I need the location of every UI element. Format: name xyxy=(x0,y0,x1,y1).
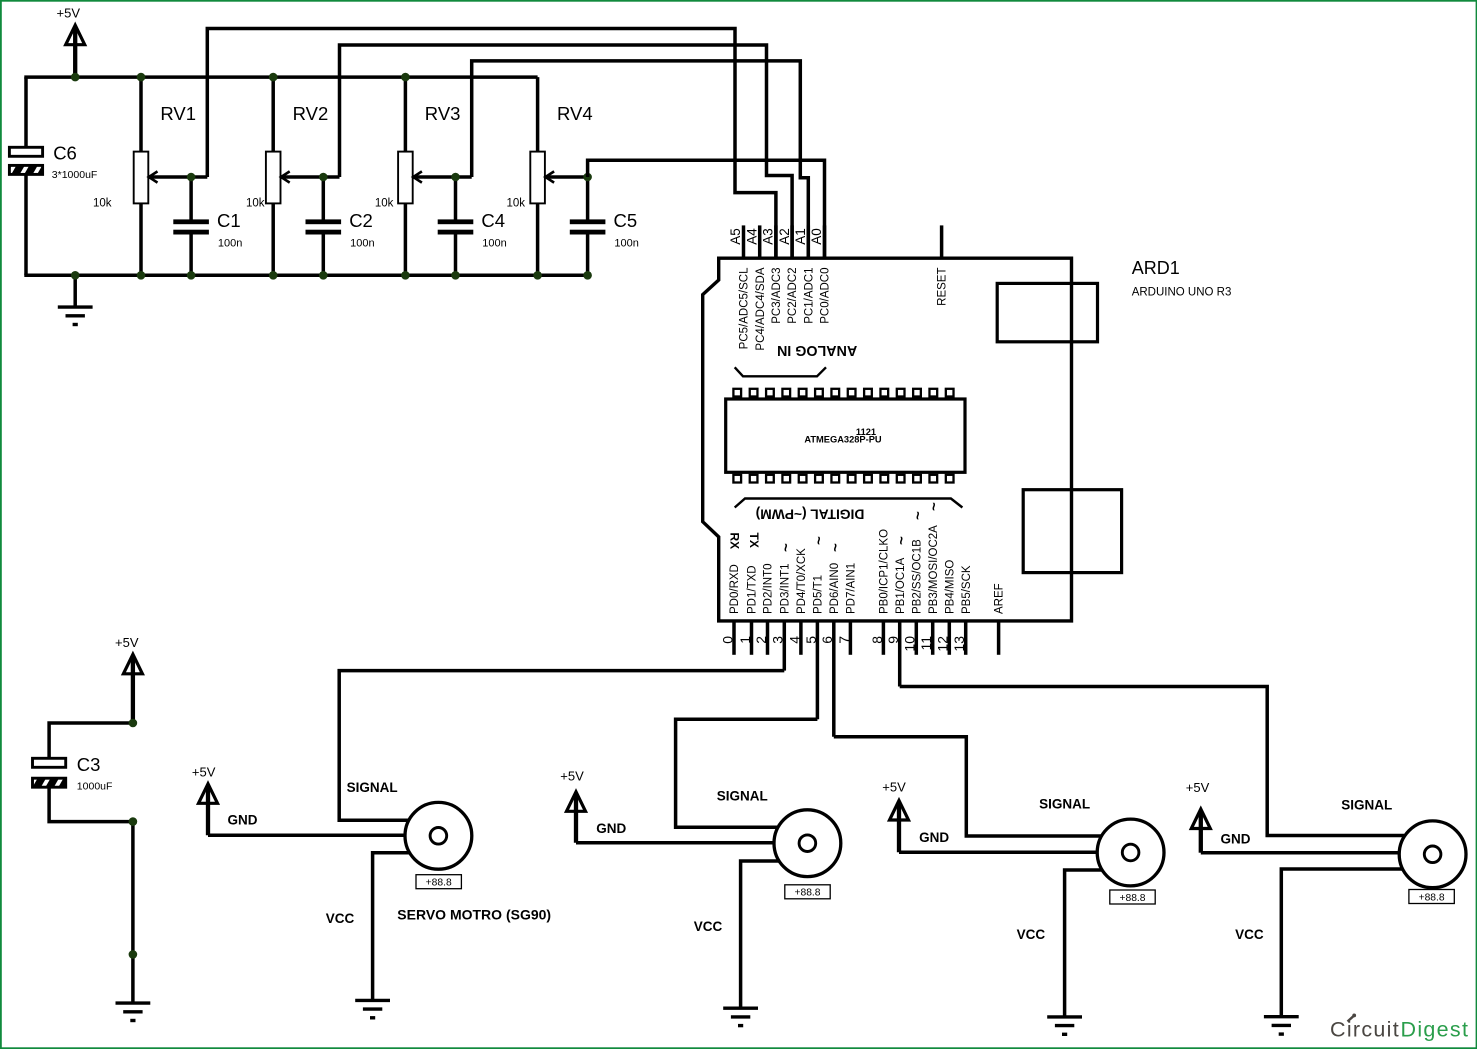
ground at servo3 vcc xyxy=(1047,1015,1082,1018)
svg-text:SIGNAL: SIGNAL xyxy=(1039,796,1090,811)
ground at C3 xyxy=(116,1001,151,1004)
arduino power connector rectangle xyxy=(1023,490,1121,573)
svg-text:AREF: AREF xyxy=(994,583,1006,614)
svg-text:Circuit: Circuit xyxy=(1330,1017,1400,1041)
servo motor M2 xyxy=(774,810,841,877)
svg-text:RX: RX xyxy=(727,533,741,550)
wire servo3 gnd xyxy=(899,851,1131,855)
capacitor C1 xyxy=(189,177,193,220)
chip pins bottom row xyxy=(733,475,741,483)
svg-text:PB1/OC1A: PB1/OC1A xyxy=(895,557,907,614)
svg-text:C1: C1 xyxy=(217,210,241,231)
wire pin9 to servo4 signal xyxy=(900,687,1404,836)
svg-text:10k: 10k xyxy=(375,198,394,210)
svg-text:10k: 10k xyxy=(246,198,265,210)
bracket digital xyxy=(735,499,963,508)
servo motor M3 xyxy=(1097,819,1164,886)
svg-text:3: 3 xyxy=(770,636,786,644)
svg-text:DIGITAL (~PWM): DIGITAL (~PWM) xyxy=(756,507,865,522)
svg-text:RV4: RV4 xyxy=(557,103,593,124)
wire C6 to bottom bus xyxy=(24,175,28,275)
svg-text:PB4/MISO: PB4/MISO xyxy=(944,560,956,614)
svg-text:PC3/ADC3: PC3/ADC3 xyxy=(771,268,783,324)
wire pin3 to servo1 signal xyxy=(339,671,784,821)
wire bottom bus xyxy=(24,274,587,278)
wire servo1 vcc xyxy=(373,853,439,1001)
arduino USB connector rectangle xyxy=(997,283,1097,341)
pin RESET stub xyxy=(940,225,944,258)
svg-text:Digest: Digest xyxy=(1401,1017,1470,1041)
svg-text:5: 5 xyxy=(803,636,819,644)
wire top bus xyxy=(24,75,537,79)
capacitor C5 xyxy=(586,177,590,220)
wire servo4 vcc xyxy=(1281,869,1432,1017)
meter display servo4 xyxy=(1409,890,1454,904)
svg-text:~: ~ xyxy=(811,536,828,545)
svg-text:ARDUINO UNO R3: ARDUINO UNO R3 xyxy=(1132,287,1232,299)
pin stubs analog A5-A0 xyxy=(742,225,746,258)
svg-text:+88.8: +88.8 xyxy=(426,878,452,889)
capacitor C4 xyxy=(454,177,458,220)
svg-text:VCC: VCC xyxy=(1235,927,1264,942)
svg-text:PD7/AIN1: PD7/AIN1 xyxy=(846,563,858,614)
junction dots top bus xyxy=(71,73,80,82)
svg-text:SIGNAL: SIGNAL xyxy=(717,789,768,804)
svg-text:A3: A3 xyxy=(761,228,776,245)
svg-text:100n: 100n xyxy=(350,237,374,249)
potentiometer RV1 xyxy=(139,77,143,152)
svg-text:A5: A5 xyxy=(728,228,743,245)
svg-text:PC2/ADC2: PC2/ADC2 xyxy=(787,268,799,324)
ground at servo1 vcc xyxy=(355,999,390,1002)
svg-text:100n: 100n xyxy=(218,237,242,249)
svg-text:RV1: RV1 xyxy=(160,103,196,124)
svg-text:PD6/AIN0: PD6/AIN0 xyxy=(829,563,841,614)
chip U2 ATMEGA328P-PU body xyxy=(726,399,965,472)
ground top-left xyxy=(73,275,77,307)
svg-text:A4: A4 xyxy=(744,228,759,245)
svg-text:6: 6 xyxy=(819,636,835,644)
junction dots wiper nodes xyxy=(187,173,196,182)
svg-text:ARD1: ARD1 xyxy=(1132,258,1180,278)
wire ground rail down xyxy=(131,822,135,1004)
svg-text:PD5/T1: PD5/T1 xyxy=(813,575,825,614)
logo CircuitDigest xyxy=(1330,1014,1469,1042)
wire servo3 vcc xyxy=(1065,870,1131,1017)
arduino U1 board outline ARD1 xyxy=(703,258,1072,621)
svg-text:A0: A0 xyxy=(809,228,824,245)
svg-text:+88.8: +88.8 xyxy=(1419,892,1445,903)
potentiometer RV4 xyxy=(536,77,540,152)
svg-text:A1: A1 xyxy=(793,228,808,245)
svg-text:1000uF: 1000uF xyxy=(77,780,113,792)
potentiometer RV3 xyxy=(404,77,408,152)
svg-text:VCC: VCC xyxy=(694,919,723,934)
svg-text:ATMEGA328P-PU: ATMEGA328P-PU xyxy=(804,435,882,445)
svg-text:+5V: +5V xyxy=(1186,780,1210,795)
svg-text:PC0/ADC0: PC0/ADC0 xyxy=(820,268,832,324)
svg-text:3*1000uF: 3*1000uF xyxy=(52,169,98,181)
svg-text:4: 4 xyxy=(786,636,802,644)
svg-text:7: 7 xyxy=(836,636,852,644)
svg-text:0: 0 xyxy=(719,636,735,644)
wire pin6 to servo3 signal xyxy=(834,737,1102,836)
wire RV4 wiper to A0 xyxy=(588,160,825,258)
svg-text:10k: 10k xyxy=(507,198,526,210)
svg-text:PB5/SCK: PB5/SCK xyxy=(961,565,973,614)
svg-text:1: 1 xyxy=(737,636,753,644)
wire servo1 gnd xyxy=(208,834,438,838)
svg-text:~: ~ xyxy=(926,502,943,511)
svg-text:+88.8: +88.8 xyxy=(794,888,820,899)
meter display servo3 xyxy=(1110,890,1155,904)
wire servo2 vcc xyxy=(741,861,808,1008)
junction dots C3 branch xyxy=(129,719,138,728)
wire C3 to ground rail xyxy=(49,788,133,822)
svg-text:A2: A2 xyxy=(777,228,792,245)
svg-text:11: 11 xyxy=(918,636,934,651)
svg-text:10: 10 xyxy=(902,636,918,652)
svg-text:+5V: +5V xyxy=(115,635,139,650)
svg-text:ANALOG IN: ANALOG IN xyxy=(777,342,857,358)
svg-text:12: 12 xyxy=(935,636,951,652)
bracket analog in xyxy=(735,367,826,376)
svg-text:SERVO MOTRO (SG90): SERVO MOTRO (SG90) xyxy=(397,906,551,922)
svg-text:~: ~ xyxy=(893,536,910,545)
svg-text:PD4/T0/XCK: PD4/T0/XCK xyxy=(796,548,808,614)
svg-text:+5V: +5V xyxy=(192,765,216,780)
servo motor M4 xyxy=(1399,821,1466,888)
svg-text:100n: 100n xyxy=(482,237,506,249)
wire pin5 to servo2 signal xyxy=(676,719,818,827)
svg-text:PB2/SS/OC1B: PB2/SS/OC1B xyxy=(911,539,923,614)
pin stubs digital 0-13 and AREF xyxy=(732,621,736,655)
meter display servo2 xyxy=(785,885,830,899)
servo motor M1 xyxy=(405,802,472,869)
svg-text:RV2: RV2 xyxy=(293,103,329,124)
wire RV3 wiper to A1 xyxy=(472,61,809,258)
capacitor C2 xyxy=(322,177,326,220)
svg-text:PB3/MOSI/OC2A: PB3/MOSI/OC2A xyxy=(928,525,940,614)
svg-text:PD2/INT0: PD2/INT0 xyxy=(763,564,775,615)
ground at servo2 vcc xyxy=(723,1007,758,1010)
svg-text:PB0/ICP1/CLKO: PB0/ICP1/CLKO xyxy=(879,529,891,614)
svg-text:PC4/ADC4/SDA: PC4/ADC4/SDA xyxy=(755,267,767,350)
meter display servo1 xyxy=(416,875,461,889)
svg-text:+5V: +5V xyxy=(882,780,906,795)
svg-text:~: ~ xyxy=(828,543,845,552)
svg-text:PC1/ADC1: PC1/ADC1 xyxy=(803,268,815,324)
junction dots bottom bus xyxy=(71,271,80,280)
svg-text:~: ~ xyxy=(778,543,795,552)
chip pins top row xyxy=(733,389,741,397)
svg-text:+5V: +5V xyxy=(57,6,81,21)
wire RV1 wiper to A3 xyxy=(207,29,776,259)
ground at servo4 vcc xyxy=(1264,1015,1299,1018)
svg-text:RESET: RESET xyxy=(937,268,949,306)
svg-text:GND: GND xyxy=(919,830,949,845)
svg-text:C4: C4 xyxy=(481,210,505,231)
svg-text:+88.8: +88.8 xyxy=(1119,893,1145,904)
svg-text:GND: GND xyxy=(596,821,626,836)
potentiometer RV2 xyxy=(271,77,275,152)
wire +5V to C3 xyxy=(49,723,133,758)
svg-text:RV3: RV3 xyxy=(425,103,461,124)
wire left branch to C6 xyxy=(24,77,28,146)
capacitor C6 xyxy=(9,147,42,156)
svg-text:PD0/RXD: PD0/RXD xyxy=(729,564,741,614)
svg-text:C3: C3 xyxy=(77,754,101,775)
svg-text:VCC: VCC xyxy=(1017,927,1046,942)
svg-text:PC5/ADC5/SCL: PC5/ADC5/SCL xyxy=(739,267,751,349)
wire servo4 gnd xyxy=(1201,851,1433,855)
svg-text:100n: 100n xyxy=(614,237,638,249)
wire RV2 wiper to A2 xyxy=(340,45,793,258)
svg-text:C5: C5 xyxy=(614,210,638,231)
svg-text:C6: C6 xyxy=(53,142,77,163)
capacitor C3 xyxy=(33,758,66,767)
svg-text:10k: 10k xyxy=(93,198,112,210)
svg-text:PD1/TXD: PD1/TXD xyxy=(747,565,759,614)
svg-text:+5V: +5V xyxy=(560,769,584,784)
svg-text:SIGNAL: SIGNAL xyxy=(1341,797,1392,812)
svg-text:TX: TX xyxy=(747,533,761,548)
wire servo2 gnd xyxy=(576,841,807,845)
svg-text:SIGNAL: SIGNAL xyxy=(347,780,398,795)
svg-text:GND: GND xyxy=(228,813,258,828)
svg-text:2: 2 xyxy=(753,636,769,644)
svg-text:8: 8 xyxy=(869,636,885,644)
svg-text:9: 9 xyxy=(885,636,901,644)
svg-text:GND: GND xyxy=(1221,832,1251,847)
svg-text:~: ~ xyxy=(910,511,927,520)
svg-text:C2: C2 xyxy=(349,210,373,231)
svg-text:13: 13 xyxy=(951,636,967,652)
svg-text:PD3/INT1: PD3/INT1 xyxy=(779,564,791,615)
svg-text:VCC: VCC xyxy=(326,911,355,926)
